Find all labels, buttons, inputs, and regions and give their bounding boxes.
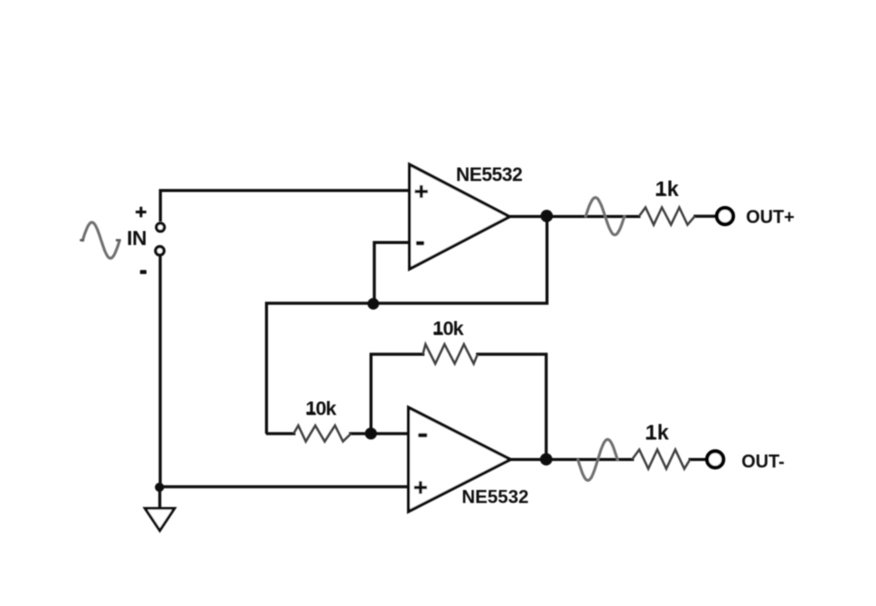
svg-text:10k: 10k [306,398,337,420]
svg-text:OUT-: OUT- [742,452,785,472]
svg-text:NE5532: NE5532 [456,165,522,186]
svg-text:NE5532: NE5532 [462,486,529,507]
svg-text:1k: 1k [655,178,679,201]
svg-text:OUT+: OUT+ [746,207,795,227]
svg-text:IN: IN [127,227,147,250]
svg-text:1k: 1k [645,422,669,445]
svg-text:10k: 10k [433,318,464,340]
